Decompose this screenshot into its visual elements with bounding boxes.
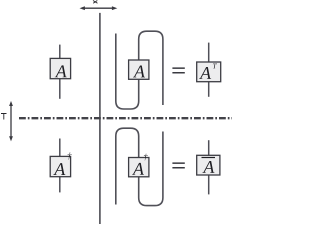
tiny axis label above top arrow <box>93 1 98 4</box>
equals sign (top) <box>172 67 184 73</box>
wire below box A-bar (bottom-right) <box>208 175 210 194</box>
overline (conjugate bar) of bottom-right box letter <box>202 157 216 159</box>
bent wire of bottom (mirrored) diagram: free end, cap, through box, cup, free end <box>116 128 163 205</box>
label A (bottom-right box letter) <box>202 161 214 173</box>
wire above box A (top-left) <box>59 45 61 59</box>
label A (bottom-left box letter) <box>53 163 65 175</box>
box A (top-middle) <box>129 60 149 79</box>
box A-bar (bottom-right) <box>197 155 220 175</box>
top flip arrow (double-headed horizontal) <box>80 6 118 10</box>
bent wire of top transpose diagram: free end, cup, through box, cap, free end <box>116 31 163 109</box>
equals sign (bottom) <box>172 162 184 168</box>
superscript dagger of bottom-middle box <box>144 154 148 161</box>
wire above box A-transpose (top-right) <box>208 43 210 62</box>
box A (top-left) <box>50 58 70 78</box>
wire above box A-dagger (bottom-left) <box>59 139 61 157</box>
label A (top-left box letter) <box>55 65 67 77</box>
wire below box A-dagger (bottom-left) <box>59 177 61 193</box>
left flip arrow (double-headed vertical) <box>9 101 13 141</box>
superscript T (transpose) of top-right box <box>213 63 217 68</box>
vertical flip-axis line <box>99 13 101 224</box>
label A (top-right box letter) <box>199 67 211 79</box>
superscript dagger of bottom-left box <box>68 153 72 160</box>
wire below box A-transpose (top-right) <box>208 82 210 97</box>
box A-dagger (bottom-middle) <box>129 158 149 177</box>
label A (bottom-middle box letter) <box>132 163 144 175</box>
wire below box A (top-left) <box>59 79 61 99</box>
wire above box A-bar (bottom-right) <box>208 140 210 155</box>
box A-transpose (top-right) <box>197 62 221 82</box>
tiny axis label left of left arrow <box>1 114 7 120</box>
label A (top-middle box letter) <box>133 66 145 78</box>
box A-dagger (bottom-left) <box>50 156 70 176</box>
horizontal dashed mirror line <box>19 117 232 119</box>
